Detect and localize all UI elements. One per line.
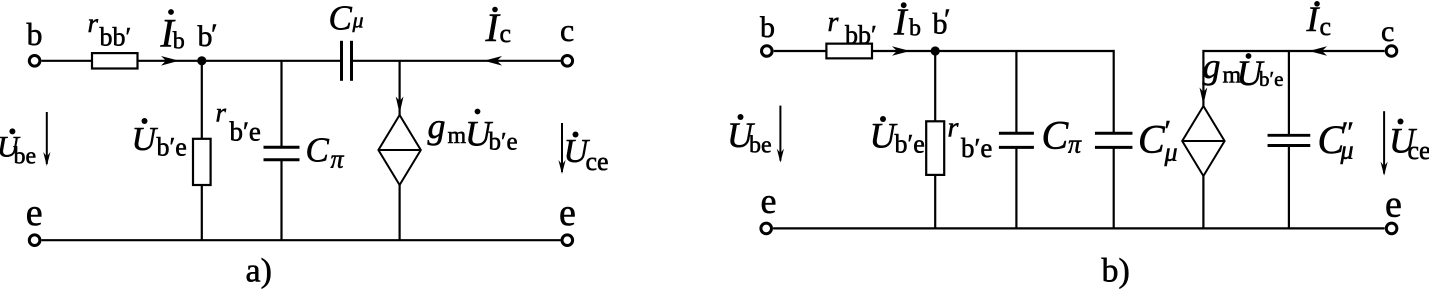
svg-text:b′e: b′e <box>961 133 992 163</box>
current arrow I_b <box>161 56 179 66</box>
svg-text:c: c <box>1381 15 1394 48</box>
label r_b'e <box>216 98 261 147</box>
svg-text:C: C <box>1042 113 1070 158</box>
caption a) <box>246 253 272 290</box>
current arrow I_b <box>892 46 910 56</box>
voltage arrow U_be <box>777 106 784 163</box>
terminal e right <box>1386 223 1397 234</box>
circuit b: hybrid-pi model with split C_mu <box>727 0 1429 290</box>
label r_bb' <box>88 8 132 52</box>
wire C_mu to terminal c <box>352 60 561 62</box>
svg-text:b′e: b′e <box>230 117 261 147</box>
wire b' down to r_b'e <box>934 51 936 121</box>
terminal c <box>1386 46 1397 57</box>
svg-text:b: b <box>173 29 185 55</box>
svg-text:e: e <box>1385 184 1402 226</box>
svg-text:C: C <box>329 0 353 38</box>
wire r_bb' to node b' <box>872 50 935 52</box>
svg-text:e: e <box>761 181 777 221</box>
controlled source g_mU_b'e <box>378 115 420 185</box>
label e right <box>559 192 576 234</box>
svg-text:m: m <box>448 123 467 149</box>
capacitor C''_mu <box>1268 135 1311 145</box>
label c <box>560 12 574 48</box>
wire C''_mu to bottom <box>1288 146 1290 229</box>
label U_b'e <box>132 118 187 162</box>
label I_b <box>893 2 921 44</box>
terminal e right <box>562 235 573 246</box>
svg-text:b: b <box>909 16 921 42</box>
label e left <box>761 181 777 221</box>
resistor r_b'e <box>926 121 944 175</box>
svg-text:C: C <box>1138 117 1166 162</box>
caption b) <box>1102 253 1130 290</box>
wire top to C''_mu <box>1288 51 1290 135</box>
svg-text:b′e: b′e <box>1259 67 1283 91</box>
label I_b <box>160 9 185 55</box>
svg-text:r: r <box>948 113 959 144</box>
label U_ce <box>1389 119 1429 166</box>
svg-text:ce: ce <box>586 147 609 176</box>
svg-text:e: e <box>26 192 43 234</box>
svg-text:I: I <box>485 5 501 50</box>
label C'_mu <box>1138 115 1178 167</box>
label b' <box>198 18 218 53</box>
wire C_pi to bottom <box>280 160 282 241</box>
svg-text:π: π <box>1068 130 1082 159</box>
label b' <box>933 3 951 41</box>
label C_pi <box>1042 113 1083 159</box>
svg-text:b: b <box>760 11 775 44</box>
wire r_b'e to bottom <box>934 175 936 229</box>
wire source to bottom <box>1202 176 1204 228</box>
wire C'_mu to bottom <box>1113 147 1115 228</box>
voltage arrow U_ce <box>558 123 565 174</box>
capacitor C_pi <box>999 133 1034 147</box>
svg-text:e: e <box>559 192 576 234</box>
terminal b <box>762 46 773 57</box>
capacitor C_pi <box>264 147 300 159</box>
wire source top to terminal c <box>1203 50 1384 52</box>
label U_be <box>0 128 36 169</box>
label g_mU_b'e <box>428 106 518 156</box>
label U_ce <box>564 132 609 177</box>
node b' <box>197 56 206 65</box>
wire source top corner <box>1200 50 1208 106</box>
svg-text:′: ′ <box>944 3 951 36</box>
svg-text:b: b <box>27 16 43 52</box>
capacitor C'_mu <box>1095 133 1133 147</box>
svg-text:g: g <box>428 106 446 146</box>
resistor r_bb' <box>92 53 138 68</box>
label U_b'e <box>870 116 925 159</box>
wire node b' to C'_mu branch <box>935 50 1113 52</box>
label e left <box>26 192 43 234</box>
wire source to bottom <box>399 185 401 240</box>
svg-text:μ: μ <box>1164 138 1178 167</box>
current arrow I_c <box>484 56 502 66</box>
wire b' down to r_b'e <box>201 61 203 139</box>
label r_bb' <box>828 7 877 50</box>
svg-text:b′e: b′e <box>895 130 925 159</box>
wire top to C_pi <box>1015 51 1017 133</box>
node b' <box>931 46 940 55</box>
resistor r_bb' <box>826 44 872 59</box>
circuit a: hybrid-pi model <box>0 0 609 290</box>
label C''_mu <box>1318 116 1355 165</box>
svg-text:μ: μ <box>352 8 364 33</box>
wire b to r_bb' <box>42 60 93 62</box>
svg-text:b′e: b′e <box>157 133 187 162</box>
wire C_pi to bottom <box>1015 147 1017 228</box>
label b <box>27 16 43 52</box>
svg-text:be: be <box>749 133 772 159</box>
svg-text:r: r <box>216 98 227 128</box>
svg-text:r: r <box>828 7 839 38</box>
terminal e left <box>29 235 40 246</box>
svg-text:ce: ce <box>1408 136 1429 165</box>
controlled source g_mU_b'e <box>1182 106 1224 176</box>
wire top to C_pi <box>280 61 282 148</box>
svg-text:c: c <box>560 12 574 48</box>
wire r_b'e to bottom <box>201 185 203 240</box>
resistor r_b'e <box>193 139 211 185</box>
label b <box>760 11 775 44</box>
svg-text:U: U <box>132 121 159 158</box>
svg-text:b′e: b′e <box>489 129 518 156</box>
wire r_bb' to node b' <box>138 60 202 62</box>
label C_mu <box>329 0 364 38</box>
label c <box>1381 15 1394 48</box>
capacitor C_mu <box>342 41 352 81</box>
label g_mU_b'e <box>1203 46 1284 93</box>
voltage arrow U_ce <box>1381 111 1388 175</box>
label r_b'e <box>948 113 993 164</box>
svg-text:c: c <box>1320 12 1332 41</box>
svg-text:′: ′ <box>211 18 218 51</box>
terminal b <box>29 56 40 67</box>
svg-text:a): a) <box>246 253 272 290</box>
svg-text:bb′: bb′ <box>845 21 877 50</box>
voltage arrow U_be <box>43 112 50 166</box>
wire node b' to C_mu <box>202 60 342 62</box>
svg-text:μ: μ <box>1340 136 1354 165</box>
svg-text:c: c <box>500 19 512 48</box>
bottom wire <box>42 239 561 241</box>
wire top to source <box>396 61 404 115</box>
label e right <box>1385 184 1402 226</box>
label I_c <box>485 5 512 50</box>
terminal e left <box>761 223 772 234</box>
wire b to r_bb' <box>774 50 827 52</box>
current arrow I_c <box>1309 46 1327 56</box>
svg-text:be: be <box>14 144 37 170</box>
wire top to C'_mu <box>1113 50 1115 133</box>
label C_pi <box>306 131 345 174</box>
label I_c <box>1306 0 1332 41</box>
svg-text:I: I <box>893 2 909 44</box>
svg-text:π: π <box>331 145 345 174</box>
svg-text:C: C <box>306 131 330 170</box>
svg-text:b): b) <box>1102 253 1130 290</box>
svg-text:bb′: bb′ <box>100 23 132 52</box>
bottom wire <box>773 227 1385 229</box>
svg-text:r: r <box>88 8 99 38</box>
label U_be <box>727 114 772 159</box>
terminal c <box>562 56 573 67</box>
